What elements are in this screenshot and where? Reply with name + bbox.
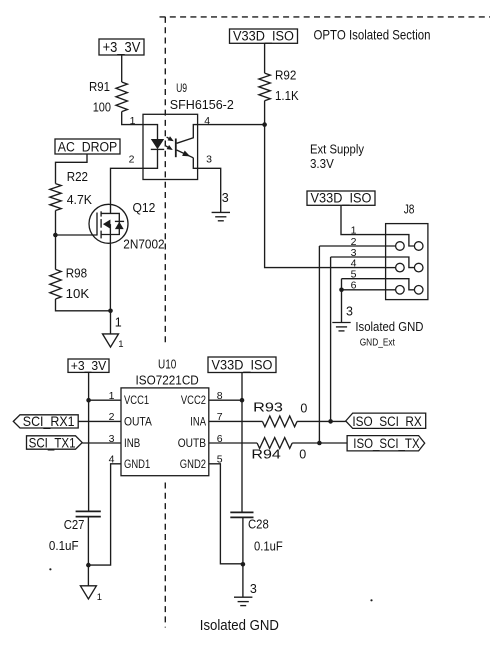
svg-text:Q12: Q12	[133, 201, 156, 215]
svg-text:3.3V: 3.3V	[310, 157, 334, 171]
wire R91 to U9 pin 1	[122, 112, 143, 125]
U9 light arrow 2	[165, 145, 173, 150]
svg-text:OUTA: OUTA	[124, 416, 152, 428]
Q12 body arrow	[103, 220, 111, 229]
svg-text:3: 3	[250, 582, 257, 596]
svg-text:AC_DROP: AC_DROP	[58, 140, 118, 155]
transistor Q12 body circle	[89, 204, 128, 243]
stray speck 2	[370, 599, 372, 601]
net label AC_DROP	[55, 139, 120, 155]
resistor R22	[50, 170, 93, 210]
label Isolated GND (J8)	[355, 319, 423, 348]
svg-text:+3_3V: +3_3V	[103, 40, 141, 56]
svg-text:0: 0	[299, 448, 306, 462]
wire C27 to ground node	[87, 517, 89, 566]
svg-text:U9: U9	[176, 81, 187, 95]
wire gate	[55, 234, 97, 236]
svg-text:R91: R91	[89, 80, 110, 94]
svg-text:R92: R92	[275, 68, 296, 82]
svg-text:R98: R98	[66, 267, 87, 281]
port SCI_RX1	[13, 413, 78, 429]
U9 light arrow 1	[167, 136, 174, 141]
svg-text:C27: C27	[64, 518, 85, 532]
node C28/GND2 junction	[241, 562, 246, 567]
node ISO_SCI_RX junction	[328, 419, 333, 424]
wire C28 to ground node	[242, 517, 244, 564]
wire U10 pin5 (GND2)	[209, 464, 243, 564]
svg-text:R93: R93	[253, 400, 283, 414]
svg-text:4.7K: 4.7K	[67, 193, 93, 207]
ground (Q12 source)	[103, 334, 124, 350]
svg-text:Ext Supply: Ext Supply	[310, 143, 365, 157]
wire U9 pin 4 to node	[198, 124, 265, 126]
resistor R98	[50, 235, 90, 301]
svg-text:3: 3	[222, 191, 229, 205]
power port +3_3V (top)	[99, 39, 144, 56]
node gate junction	[53, 233, 58, 238]
node R92/U9.4 junction	[262, 122, 267, 127]
wire U9 pin 3 to ground	[198, 168, 221, 212]
svg-text:0: 0	[300, 402, 307, 416]
Q12 gate bar	[96, 213, 98, 236]
svg-text:V33D_ISO: V33D_ISO	[233, 29, 294, 44]
svg-text:Isolated GND: Isolated GND	[355, 319, 423, 334]
Q12 body diode	[115, 221, 124, 229]
Q12 channel bar	[100, 211, 102, 238]
label Ext Supply	[310, 143, 365, 172]
U9 LED cathode lead to pin 2	[143, 149, 158, 168]
ground (C27)	[80, 586, 102, 603]
J8 pin 6 wire	[342, 289, 396, 291]
U9 phototransistor base bar	[175, 139, 177, 158]
J8 pin 3 wire and jog	[331, 257, 415, 268]
power port V33D_ISO (J8)	[307, 191, 375, 206]
capacitor C27	[49, 400, 101, 553]
wire V33D_ISO to R92	[264, 43, 266, 73]
U9 phototransistor emitter	[177, 150, 198, 168]
isolation boundary (dashed)	[160, 17, 490, 628]
wire R22 to gate node	[55, 211, 57, 236]
port ISO_SCI_RX	[346, 413, 426, 429]
wire R93 to port	[297, 420, 346, 422]
ground (U9 pin 3)	[212, 212, 230, 220]
wire U9 pin 2 to Q12 drain	[111, 168, 144, 213]
node J8 pin 6 junction	[339, 288, 344, 293]
ground isolated (C28)	[234, 597, 252, 605]
J8 pin 2 wire	[319, 245, 395, 247]
svg-text:INB: INB	[124, 438, 140, 450]
Q12 source lead	[109, 224, 111, 311]
wire J8 pin 3 to ISO_SCI_RX net	[330, 257, 332, 421]
svg-text:V33D_ISO: V33D_ISO	[311, 191, 372, 206]
svg-text:R22: R22	[67, 170, 88, 184]
power port V33D_ISO (U10)	[208, 357, 276, 373]
svg-text:VCC2: VCC2	[181, 395, 206, 407]
svg-text:SCI_RX1: SCI_RX1	[23, 413, 75, 429]
wire J8 pin 2 to ISO_SCI_TX net	[318, 246, 320, 443]
Q12 drain-source frame	[101, 213, 119, 234]
J8 contact circles	[396, 286, 423, 295]
svg-text:ISO7221CD: ISO7221CD	[136, 374, 199, 388]
J8 contact circles	[396, 242, 423, 251]
svg-text:R94: R94	[251, 447, 280, 461]
svg-text:J8: J8	[404, 203, 415, 217]
svg-text:2: 2	[129, 153, 135, 165]
wire V33D_ISO to VCC2 node	[241, 373, 243, 401]
transistor Q12 labels	[123, 201, 164, 252]
svg-text:1: 1	[118, 339, 123, 350]
IC U10 box	[121, 388, 209, 476]
wire U10 pin3 (INB)	[82, 442, 121, 444]
wire to power ground	[110, 311, 112, 334]
svg-text:1: 1	[130, 115, 136, 127]
port SCI_TX1	[27, 434, 83, 450]
svg-text:1: 1	[97, 592, 102, 603]
svg-text:C28: C28	[248, 518, 269, 532]
svg-text:1: 1	[351, 224, 357, 236]
wire +3_3V to R91	[121, 55, 123, 82]
J8 pin 1 jog	[386, 235, 415, 246]
wire J8 pin6 to isolated ground	[341, 290, 343, 323]
optocoupler U9 labels	[170, 81, 234, 112]
wire U10 pin2 (OUTA)	[78, 420, 121, 422]
svg-text:OPTO Isolated Section: OPTO Isolated Section	[314, 27, 431, 43]
node source junction	[108, 309, 113, 314]
svg-text:100: 100	[93, 101, 111, 115]
U9 LED triangle	[151, 139, 164, 149]
U9 phototransistor collector	[177, 125, 198, 144]
svg-text:Isolated GND: Isolated GND	[200, 618, 279, 634]
svg-text:ISO_SCI_RX: ISO_SCI_RX	[352, 414, 421, 429]
optocoupler U9 box	[143, 114, 198, 179]
wire R98 to source node	[56, 299, 111, 311]
wire to ground triangle	[87, 565, 89, 586]
wire U10 pin1 (VCC1)	[89, 399, 121, 401]
wire J8 pin5/6 tie	[341, 279, 343, 290]
svg-text:3: 3	[206, 153, 212, 165]
svg-text:INA: INA	[190, 416, 206, 428]
U9 LED anode lead	[143, 125, 158, 139]
wire U10 pin4 (GND1)	[88, 464, 121, 565]
resistor R93	[253, 400, 307, 427]
wire U10 pin8 (VCC2)	[209, 399, 242, 401]
wire V33D_ISO to J8 pin 1	[341, 205, 409, 234]
svg-text:GND1: GND1	[124, 459, 150, 471]
resistor R92	[259, 68, 299, 103]
resistor R94	[251, 438, 306, 462]
node ISO_SCI_TX junction	[317, 441, 322, 446]
node VCC1 junction	[86, 398, 91, 403]
node VCC2 junction	[240, 398, 245, 403]
wire to isolated ground	[242, 564, 244, 597]
connector J8 box	[386, 224, 428, 300]
svg-text:VCC1: VCC1	[124, 395, 149, 407]
wire R92 to node	[264, 101, 266, 125]
svg-text:0.1uF: 0.1uF	[49, 539, 79, 553]
stray speck 1	[49, 568, 51, 570]
svg-text:ISO_SCI_TX: ISO_SCI_TX	[353, 436, 419, 451]
svg-text:V33D_ISO: V33D_ISO	[212, 358, 273, 373]
svg-text:6: 6	[351, 280, 357, 292]
wire R94 to port	[292, 442, 347, 444]
power port V33D_ISO (top)	[230, 29, 298, 44]
svg-text:GND2: GND2	[180, 459, 206, 471]
svg-text:0.1uF: 0.1uF	[254, 540, 283, 554]
J8 contact circles	[396, 263, 423, 272]
U9 LED cathode bar	[151, 148, 164, 150]
wire VCC2 node to C28	[241, 400, 243, 512]
svg-text:SCI_TX1: SCI_TX1	[29, 434, 76, 450]
wire U10 pin7 (INA)	[209, 420, 263, 422]
svg-text:GND_Ext: GND_Ext	[360, 337, 395, 348]
IC U10 labels	[136, 357, 199, 387]
svg-text:2N7002: 2N7002	[123, 238, 164, 252]
svg-text:1: 1	[115, 316, 122, 330]
svg-text:3: 3	[346, 305, 353, 319]
resistor R91	[89, 80, 127, 114]
svg-text:+3_3V: +3_3V	[71, 358, 107, 373]
svg-text:OUTB: OUTB	[178, 438, 207, 450]
capacitor C28	[230, 512, 283, 553]
ground isolated (J8)	[332, 323, 350, 331]
wire AC_DROP to R22	[56, 154, 88, 184]
svg-text:SFH6156-2: SFH6156-2	[170, 98, 234, 112]
wire +3_3V to U10 VCC1	[88, 372, 90, 400]
node C27/GND1 junction	[86, 563, 91, 568]
J8 pin 5 wire and jog	[342, 279, 415, 290]
J8 pin 4 wire	[386, 267, 396, 269]
power port +3_3V (U10)	[68, 358, 109, 373]
svg-text:10K: 10K	[66, 287, 90, 301]
svg-text:1.1K: 1.1K	[275, 89, 299, 103]
wire U10 pin6 (OUTB)	[209, 442, 257, 444]
wire node to J8 pin 4	[265, 125, 386, 268]
svg-text:U10: U10	[158, 357, 176, 371]
port ISO_SCI_TX	[347, 436, 425, 452]
